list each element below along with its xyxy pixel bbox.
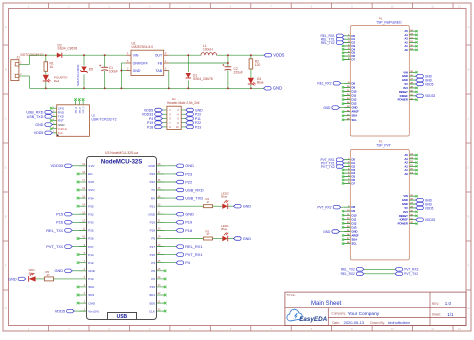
svg-text:Drawn By:: Drawn By: xyxy=(370,321,385,325)
net flag P18 (U3 right) xyxy=(157,228,193,233)
net flag P11 (H1 right) xyxy=(186,117,201,121)
net flag P22 (U3 right) xyxy=(157,179,193,184)
svg-text:GND: GND xyxy=(402,74,408,78)
P2 analog pins A5-A0 xyxy=(405,153,416,176)
svg-text:P18: P18 xyxy=(185,228,192,233)
svg-text:G: G xyxy=(467,306,469,310)
svg-text:SVN: SVN xyxy=(88,188,94,192)
svg-text:D0: D0 xyxy=(352,158,356,162)
nc pin xyxy=(342,243,344,245)
net flag P15 (U3 left) xyxy=(56,212,86,217)
nc pin xyxy=(77,294,80,297)
svg-text:IOREF: IOREF xyxy=(400,94,409,98)
svg-text:D7: D7 xyxy=(352,181,356,185)
svg-text:D2: D2 xyxy=(352,41,356,45)
svg-text:VDD5: VDD5 xyxy=(425,82,434,86)
svg-text:USR-TCP232-T2: USR-TCP232-T2 xyxy=(92,117,117,121)
svg-text:120: 120 xyxy=(255,63,261,67)
svg-text:3V3: 3V3 xyxy=(403,86,408,90)
svg-text:D7: D7 xyxy=(352,58,356,62)
svg-text:VIN: VIN xyxy=(403,194,408,198)
net flag VDD33 (U3 left) xyxy=(51,163,87,168)
svg-text:B: B xyxy=(468,68,470,72)
net flag GND xyxy=(416,198,433,202)
net flag PVT_RX1 xyxy=(321,158,344,162)
nc pin xyxy=(342,58,344,60)
nc pin xyxy=(342,94,344,96)
wire J1 pin2 to GND rail xyxy=(19,76,30,88)
svg-text:F: F xyxy=(5,264,7,268)
svg-text:RESET: RESET xyxy=(399,214,408,218)
svg-text:GND: GND xyxy=(352,106,358,110)
net flag GND (U3 right) xyxy=(157,212,194,217)
nc pin xyxy=(342,218,344,220)
wire net REL_RX2 to PVT_TX2 xyxy=(341,272,419,276)
svg-text:A4: A4 xyxy=(405,33,409,37)
svg-text:Blue: Blue xyxy=(221,227,227,231)
svg-text:CLK: CLK xyxy=(149,309,155,313)
svg-text:U3 NodeMCU-32S-ua: U3 NodeMCU-32S-ua xyxy=(105,151,138,155)
P1 digital pins D0-D7 xyxy=(344,34,356,62)
svg-text:REL_RX1: REL_RX1 xyxy=(185,244,202,249)
module U2 USR-TCP232-T2 xyxy=(52,98,117,136)
resistor R5 xyxy=(45,270,54,281)
net flag VDD33 xyxy=(416,94,436,98)
net flag P16 (U3 left) xyxy=(56,220,86,225)
svg-text:P15: P15 xyxy=(56,212,63,217)
svg-text:2020-05-13: 2020-05-13 xyxy=(344,320,365,325)
svg-text:P23: P23 xyxy=(195,125,201,129)
nc pin xyxy=(416,91,418,93)
svg-text:AREF: AREF xyxy=(352,110,360,114)
svg-text:F: F xyxy=(468,264,470,268)
svg-text:GND: GND xyxy=(243,237,252,241)
svg-text:GND: GND xyxy=(185,163,194,168)
LED LED1 blue xyxy=(213,224,230,241)
capacitor C2 xyxy=(222,64,243,88)
svg-text:CMD: CMD xyxy=(88,301,96,305)
nc pin xyxy=(342,90,344,92)
svg-text:P19: P19 xyxy=(185,220,192,225)
svg-text:1k: 1k xyxy=(50,65,54,69)
nc pin xyxy=(416,71,418,73)
svg-text:B: B xyxy=(5,68,7,72)
svg-text:USB_RXD: USB_RXD xyxy=(185,187,204,192)
USB connector block on U3 xyxy=(108,313,137,321)
nc pin xyxy=(342,119,344,121)
resistor R4 xyxy=(164,197,212,208)
svg-text:P15: P15 xyxy=(150,285,156,289)
nc pin xyxy=(342,48,344,50)
svg-text:P4: P4 xyxy=(185,260,191,265)
svg-text:PVT_TX2: PVT_TX2 xyxy=(321,165,335,169)
nc pin xyxy=(416,38,418,40)
svg-text:A4: A4 xyxy=(405,157,409,161)
net flag REL_TX2 xyxy=(321,41,344,45)
module U3 NodeMCU-32S xyxy=(79,151,164,319)
net flag REL_TX1 (U3 left) xyxy=(46,228,86,233)
svg-text:Your Company: Your Company xyxy=(348,311,380,317)
nc pin xyxy=(416,154,418,156)
svg-text:REL_TX2: REL_TX2 xyxy=(341,268,355,272)
svg-text:Date:: Date: xyxy=(332,321,340,325)
svg-text:1.0: 1.0 xyxy=(445,301,452,306)
svg-text:Blue: Blue xyxy=(257,81,264,85)
svg-text:P34: P34 xyxy=(88,196,94,200)
svg-text:USB_TXD: USB_TXD xyxy=(27,115,44,119)
net flag P19 (U3 right) xyxy=(157,220,193,225)
nc pin xyxy=(77,189,80,192)
P1 pins D8-SCL xyxy=(344,81,359,122)
svg-text:POWER: POWER xyxy=(398,98,408,102)
svg-text:Main Sheet: Main Sheet xyxy=(311,301,342,307)
svg-text:PVT_RX2: PVT_RX2 xyxy=(317,206,331,210)
svg-text:12: 12 xyxy=(458,4,462,8)
nc pin xyxy=(342,172,344,174)
resistor R3 xyxy=(164,229,212,240)
svg-text:SD0: SD0 xyxy=(149,301,155,305)
nc pin xyxy=(416,49,418,51)
net flag VDD33 xyxy=(416,218,436,222)
svg-text:GND: GND xyxy=(273,86,282,91)
svg-text:Red: Red xyxy=(54,79,60,83)
svg-text:P12: P12 xyxy=(88,261,94,265)
TVS diode D5 xyxy=(77,55,93,88)
svg-text:TSP_RelPushED: TSP_RelPushED xyxy=(376,20,402,24)
net flag P22 (H1 right) xyxy=(186,112,201,116)
svg-text:D: D xyxy=(467,166,469,170)
nc pin xyxy=(342,103,344,105)
svg-text:ON#/OFF: ON#/OFF xyxy=(133,61,148,65)
svg-text:A2: A2 xyxy=(405,164,409,168)
svg-text:D1: D1 xyxy=(352,161,356,165)
nc pin xyxy=(164,278,167,281)
svg-text:POWER: POWER xyxy=(398,222,408,226)
svg-text:EasyEDA: EasyEDA xyxy=(299,316,327,323)
nc pin xyxy=(416,162,418,164)
svg-text:12: 12 xyxy=(458,327,462,331)
svg-text:D12: D12 xyxy=(352,221,357,225)
wire J1 pin1 to VIN rail xyxy=(19,55,30,64)
net flag USB_TXD xyxy=(27,115,57,119)
svg-text:A: A xyxy=(5,25,7,29)
nc pin xyxy=(342,45,344,47)
net flag GND (LED) xyxy=(228,237,252,241)
LED D4 blue xyxy=(248,77,264,88)
P2 digital pins D0-D7 xyxy=(344,158,356,186)
svg-text:REL_TX2: REL_TX2 xyxy=(321,41,335,45)
svg-text:VDD33: VDD33 xyxy=(425,94,436,98)
svg-text:3V3: 3V3 xyxy=(403,210,408,214)
net flag P19 (H1 left) xyxy=(147,121,162,125)
svg-text:D: D xyxy=(5,166,7,170)
svg-text:E: E xyxy=(468,215,470,219)
svg-text:GND: GND xyxy=(352,230,358,234)
svg-text:VDD33: VDD33 xyxy=(51,163,64,168)
net flag USB_RXD xyxy=(26,110,56,114)
nc pins U2 xyxy=(50,107,53,130)
nc pin xyxy=(164,294,167,297)
svg-text:SD1: SD1 xyxy=(149,293,155,297)
net flag GND xyxy=(416,74,433,78)
net flag VDD33 (H1 left) xyxy=(142,112,162,116)
svg-text:IOREF: IOREF xyxy=(400,218,409,222)
svg-text:SS04_C8678: SS04_C8678 xyxy=(193,77,213,81)
wire GND bottom rail xyxy=(30,87,264,89)
nc pin xyxy=(77,302,80,305)
svg-text:A2: A2 xyxy=(405,40,409,44)
svg-text:C: C xyxy=(5,117,7,121)
svg-text:GND: GND xyxy=(402,198,408,202)
wire L1 to VDD5 xyxy=(217,54,264,56)
svg-text:P33: P33 xyxy=(88,221,94,225)
net flag PVT_TX1 (U3 left) xyxy=(46,244,86,249)
svg-text:GND: GND xyxy=(54,268,63,273)
net flag P23 (H1 right) xyxy=(186,125,201,129)
nc pin xyxy=(342,234,344,236)
nc pin xyxy=(416,165,418,167)
nc pin xyxy=(416,173,418,175)
svg-text:GND: GND xyxy=(243,205,252,209)
svg-text:10: 10 xyxy=(391,4,395,8)
svg-text:P4: P4 xyxy=(151,261,155,265)
header H1 2x5 xyxy=(162,97,199,129)
net flag REL_TX1 xyxy=(321,37,344,41)
svg-text:GND: GND xyxy=(323,230,331,234)
wire FB loop xyxy=(169,55,228,67)
nc pin xyxy=(342,98,344,100)
svg-text:D6: D6 xyxy=(352,54,356,58)
svg-text:D0: D0 xyxy=(352,34,356,38)
svg-text:SDA: SDA xyxy=(352,114,358,118)
svg-text:VDD5: VDD5 xyxy=(425,206,434,210)
net flag GND (H1 right) xyxy=(186,108,203,112)
nc pin xyxy=(77,181,80,184)
svg-text:P13: P13 xyxy=(88,277,94,281)
svg-text:100uF: 100uF xyxy=(109,69,118,73)
net flag P4 (U3 right) xyxy=(157,260,191,265)
net flag P23 (U3 right) xyxy=(157,171,193,176)
net flag GND xyxy=(416,78,433,82)
nc pin xyxy=(342,86,344,88)
svg-text:P35: P35 xyxy=(88,204,94,208)
svg-text:D4: D4 xyxy=(352,47,356,51)
P1 power pins xyxy=(398,70,416,101)
svg-text:REL_RX2: REL_RX2 xyxy=(341,272,355,276)
svg-text:P25: P25 xyxy=(88,229,94,233)
nc pin xyxy=(342,210,344,212)
svg-text:VIN: VIN xyxy=(133,54,139,58)
svg-text:D9: D9 xyxy=(352,85,356,89)
net flag GND (U3 right) xyxy=(157,163,194,168)
nc pin xyxy=(164,270,167,273)
LED WiFi blue xyxy=(29,268,36,282)
nc pin xyxy=(342,176,344,178)
svg-text:GND: GND xyxy=(148,164,156,168)
svg-text:5V: 5V xyxy=(405,206,408,210)
svg-text:11: 11 xyxy=(431,327,434,331)
regulator U1 LM2576 xyxy=(126,42,169,76)
wire TAB to rail xyxy=(168,71,170,89)
net flag REL_RX1 (U3 right) xyxy=(157,244,203,249)
svg-text:A3: A3 xyxy=(405,37,409,41)
connector P1 TSP_RelPushED xyxy=(350,16,409,136)
net flag PVT_TX2 xyxy=(321,165,344,169)
svg-text:P16: P16 xyxy=(150,253,156,257)
svg-text:SDA: SDA xyxy=(352,238,358,242)
net flag VDD5 (regulator output) xyxy=(264,53,285,58)
nc pin xyxy=(416,41,418,43)
svg-text:USB: USB xyxy=(117,314,128,320)
svg-text:GND: GND xyxy=(185,212,194,217)
svg-text:D10: D10 xyxy=(352,213,357,217)
svg-text:GND: GND xyxy=(148,212,156,216)
svg-text:Header-Male 2.54_2x5: Header-Male 2.54_2x5 xyxy=(167,101,200,105)
net flag PVT_RX1 (U3 right) xyxy=(157,252,203,257)
nc pin xyxy=(342,214,344,216)
svg-text:C: C xyxy=(467,117,469,121)
svg-text:P21: P21 xyxy=(150,204,156,208)
svg-text:100uH: 100uH xyxy=(203,48,213,52)
svg-text:A0: A0 xyxy=(405,172,409,176)
nc pin xyxy=(416,34,418,36)
svg-text:A5: A5 xyxy=(405,29,409,33)
svg-text:D13: D13 xyxy=(352,225,357,229)
svg-text:VDD5: VDD5 xyxy=(55,309,65,314)
svg-text:REV:: REV: xyxy=(432,302,439,306)
svg-text:D8: D8 xyxy=(352,205,356,209)
nc pin xyxy=(77,237,80,240)
svg-text:LM2576S4-5.0: LM2576S4-5.0 xyxy=(132,45,154,49)
svg-text:D5: D5 xyxy=(352,51,356,55)
net flag REL_RX2 xyxy=(317,82,343,86)
svg-text:47: 47 xyxy=(47,273,51,277)
svg-text:A0: A0 xyxy=(405,48,409,52)
nc pin xyxy=(416,211,418,213)
svg-text:SCL: SCL xyxy=(352,242,358,246)
svg-text:P22: P22 xyxy=(185,179,192,184)
nc pin xyxy=(416,30,418,32)
nc pin xyxy=(416,195,418,197)
junction dots power section xyxy=(45,54,252,89)
svg-text:P19: P19 xyxy=(150,221,156,225)
net flag P18 (H1 left) xyxy=(147,125,162,129)
svg-text:EN: EN xyxy=(88,172,92,176)
net flag VDD5 xyxy=(416,82,434,86)
net flag VDD5 (H1 left) xyxy=(144,108,163,112)
svg-text:GND: GND xyxy=(8,277,17,281)
svg-text:P0: P0 xyxy=(151,269,155,273)
svg-text:A3: A3 xyxy=(405,161,409,165)
svg-text:P26: P26 xyxy=(88,237,94,241)
svg-text:P32: P32 xyxy=(88,212,94,216)
nc pin xyxy=(164,286,167,289)
connector P2 TSP_PVT xyxy=(350,140,409,260)
svg-text:SD2: SD2 xyxy=(88,285,94,289)
svg-text:E: E xyxy=(5,215,7,219)
svg-text:47: 47 xyxy=(207,200,211,204)
svg-text:GND: GND xyxy=(323,106,331,110)
nc pin xyxy=(342,226,344,228)
svg-text:AREF: AREF xyxy=(352,234,360,238)
nc pin xyxy=(416,99,418,101)
svg-text:P16: P16 xyxy=(56,220,63,225)
nc pin xyxy=(164,310,167,313)
svg-text:220uF: 220uF xyxy=(234,70,243,74)
svg-text:11: 11 xyxy=(431,4,434,8)
svg-text:D10: D10 xyxy=(352,89,357,93)
svg-text:P5: P5 xyxy=(151,237,155,241)
svg-text:SMAJ5.0A-C14021: SMAJ5.0A-C14021 xyxy=(77,64,80,86)
svg-text:D1: D1 xyxy=(352,37,356,41)
svg-text:TITLE:: TITLE: xyxy=(286,293,295,297)
svg-text:D2: D2 xyxy=(352,165,356,169)
EasyEDA logo xyxy=(287,309,328,323)
svg-text:D5: D5 xyxy=(89,68,93,72)
nc pin xyxy=(77,205,80,208)
wire net REL_TX2 to PVT_RX2 xyxy=(341,268,419,272)
svg-text:VDD5: VDD5 xyxy=(34,131,44,135)
net flag REL_RX1 xyxy=(321,34,344,38)
svg-text:G: G xyxy=(5,306,7,310)
svg-text:Blue: Blue xyxy=(221,195,227,199)
nc pin xyxy=(416,169,418,171)
nc pin xyxy=(342,52,344,54)
nc pin xyxy=(77,253,80,256)
svg-text:USB_TXD: USB_TXD xyxy=(185,196,203,201)
svg-text:SD3: SD3 xyxy=(88,293,94,297)
nc pin xyxy=(342,239,344,241)
svg-text:47: 47 xyxy=(207,232,211,236)
wire LED-R5 xyxy=(36,278,45,280)
svg-text:D5: D5 xyxy=(352,175,356,179)
svg-text:D11: D11 xyxy=(352,94,357,98)
svg-text:D9: D9 xyxy=(352,209,356,213)
nc pin xyxy=(342,115,344,117)
svg-text:10: 10 xyxy=(391,327,395,331)
connector J1 xyxy=(11,53,44,80)
wire R5 to P13 xyxy=(54,278,80,280)
nc pin xyxy=(77,286,80,289)
svg-text:VDD5: VDD5 xyxy=(273,53,285,58)
inductor L1 xyxy=(201,44,217,55)
P2 power pins xyxy=(398,194,416,225)
net flag GND xyxy=(416,202,433,206)
nc pin xyxy=(342,222,344,224)
P2 pins D8-SCL xyxy=(344,205,359,245)
svg-text:PVT_TX1: PVT_TX1 xyxy=(46,244,63,249)
svg-text:TX: TX xyxy=(151,188,155,192)
svg-text:SCL: SCL xyxy=(352,118,358,122)
svg-text:P2: P2 xyxy=(151,277,155,281)
svg-text:VIN: VIN xyxy=(403,70,408,74)
nc pin xyxy=(342,55,344,57)
nc pin xyxy=(77,173,80,176)
svg-text:OUT: OUT xyxy=(155,54,163,58)
net flag GND (U2) xyxy=(35,123,56,127)
svg-text:Blue: Blue xyxy=(29,271,35,275)
svg-text:P23: P23 xyxy=(185,171,192,176)
capacitor C1 xyxy=(99,55,118,88)
net flag USB_RXD (U3 right) xyxy=(157,187,204,192)
svg-text:3.3V: 3.3V xyxy=(88,164,94,168)
net flag GND (power rail) xyxy=(264,86,283,91)
svg-text:A5: A5 xyxy=(405,153,409,157)
svg-text:D11: D11 xyxy=(352,217,357,221)
nc pin xyxy=(342,169,344,171)
svg-text:Company:: Company: xyxy=(331,312,346,316)
svg-text:D13: D13 xyxy=(352,102,357,106)
